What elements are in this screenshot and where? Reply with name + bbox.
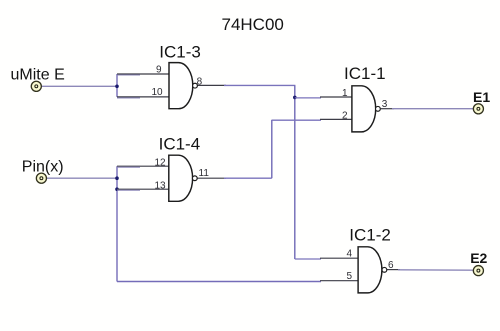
bubble IC1-2 bbox=[382, 267, 387, 272]
wire horizontal to pin2 bbox=[272, 119, 321, 121]
svg-text:IC1-2: IC1-2 bbox=[349, 226, 391, 245]
svg-text:13: 13 bbox=[155, 180, 167, 191]
svg-text:74HC00: 74HC00 bbox=[222, 15, 284, 34]
svg-text:IC1-1: IC1-1 bbox=[344, 64, 386, 83]
wire pin 13 lead bbox=[117, 188, 169, 190]
wire IC1-3 output stub bbox=[197, 84, 226, 86]
wire vertical input loop IC1-3 bbox=[116, 74, 118, 97]
node junction pin13 bbox=[115, 187, 119, 191]
wire pin 5 lead bbox=[320, 280, 358, 282]
svg-text:1: 1 bbox=[342, 88, 348, 99]
wire pin 9 lead bbox=[117, 73, 169, 75]
wire vertical to pin2 bbox=[271, 120, 273, 178]
nand gate IC1-4 body bbox=[169, 155, 193, 201]
wire IC1-1 output stub bbox=[381, 108, 394, 110]
wire Pin(x) to junction bbox=[47, 177, 117, 179]
svg-text:4: 4 bbox=[347, 249, 353, 260]
nand gate IC1-1 body bbox=[352, 86, 376, 132]
svg-text:E2: E2 bbox=[470, 250, 487, 266]
wire pin 4 lead bbox=[320, 257, 358, 259]
wire to E2 bbox=[398, 269, 474, 271]
wire stub pin 9 blue bbox=[117, 74, 140, 76]
svg-text:8: 8 bbox=[197, 77, 203, 88]
wire pin 1 lead bbox=[320, 96, 352, 98]
terminal E1 bbox=[473, 104, 483, 114]
wire main vertical net U3out bbox=[294, 85, 296, 259]
svg-text:3: 3 bbox=[382, 99, 388, 110]
bubble IC1-4 bbox=[192, 176, 197, 181]
wire to E1 bbox=[392, 108, 474, 110]
svg-text:Pin(x): Pin(x) bbox=[22, 158, 64, 175]
nand gate IC1-3 body bbox=[169, 63, 193, 109]
wire IC1-2 output stub bbox=[387, 269, 400, 271]
svg-text:6: 6 bbox=[388, 260, 394, 271]
svg-text:2: 2 bbox=[342, 110, 348, 121]
wire stub pin 13 blue bbox=[117, 189, 140, 191]
wire bottom rail to pin5 bbox=[117, 281, 321, 283]
wire junction to pin1 bbox=[295, 97, 321, 99]
wire IC1-4 output stub bbox=[197, 177, 226, 179]
node junction Pin(x) bbox=[115, 176, 119, 180]
svg-text:9: 9 bbox=[156, 64, 162, 75]
terminal uMite E bbox=[31, 81, 41, 91]
svg-text:5: 5 bbox=[347, 271, 353, 282]
wire pin 12 lead bbox=[117, 165, 169, 167]
nand gate IC1-2 body bbox=[358, 247, 382, 293]
node junction uMite bbox=[115, 85, 119, 89]
wire stub pin 10 blue bbox=[117, 97, 140, 99]
wire pin 2 lead bbox=[320, 118, 352, 120]
wire corner to pin4 bbox=[295, 258, 321, 260]
terminal Pin(x) bbox=[36, 173, 46, 183]
svg-text:IC1-3: IC1-3 bbox=[159, 43, 201, 62]
svg-text:11: 11 bbox=[199, 168, 210, 179]
svg-text:uMite E: uMite E bbox=[11, 66, 65, 83]
node junction pin1 bbox=[293, 96, 297, 100]
bubble IC1-1 bbox=[376, 106, 381, 111]
wire IC1-4 output to vertical bbox=[224, 177, 272, 179]
wire stub pin 12 blue bbox=[117, 166, 140, 168]
wire uMite E to junction bbox=[42, 85, 117, 87]
svg-text:12: 12 bbox=[155, 157, 167, 168]
wire vertical from pin12 down to bottom rail bbox=[116, 166, 118, 281]
bubble IC1-3 bbox=[193, 83, 198, 88]
svg-text:10: 10 bbox=[152, 87, 164, 98]
wire pin 10 lead bbox=[117, 96, 169, 98]
svg-text:IC1-4: IC1-4 bbox=[159, 134, 201, 153]
svg-text:E1: E1 bbox=[473, 89, 490, 105]
terminal E2 bbox=[473, 266, 483, 276]
wire IC1-3 output to vertical bbox=[224, 84, 295, 86]
